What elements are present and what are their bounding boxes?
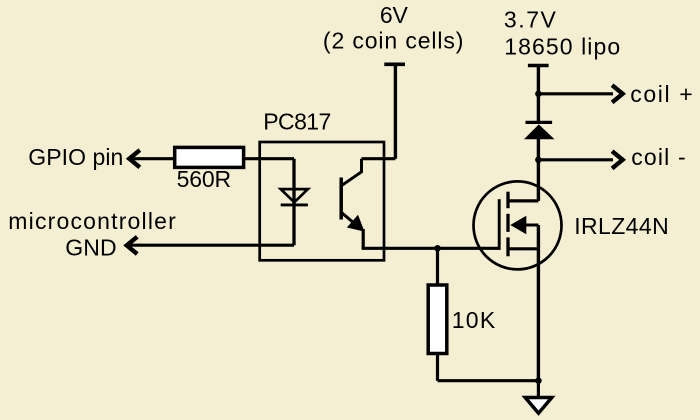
svg-text:PC817: PC817 (263, 109, 331, 135)
svg-text:(2 coin cells): (2 coin cells) (323, 27, 464, 53)
svg-text:IRLZ44N: IRLZ44N (574, 213, 669, 239)
svg-text:560R: 560R (177, 166, 232, 192)
svg-text:10K: 10K (452, 307, 496, 333)
svg-text:GPIO pin: GPIO pin (28, 144, 123, 170)
svg-text:3.7V: 3.7V (504, 6, 557, 32)
svg-text:18650 lipo: 18650 lipo (504, 34, 620, 60)
svg-text:6V: 6V (380, 2, 409, 28)
svg-text:coil +: coil + (630, 81, 693, 107)
svg-text:microcontroller: microcontroller (8, 208, 176, 234)
svg-text:GND: GND (65, 234, 116, 260)
svg-text:coil -: coil - (631, 144, 686, 170)
